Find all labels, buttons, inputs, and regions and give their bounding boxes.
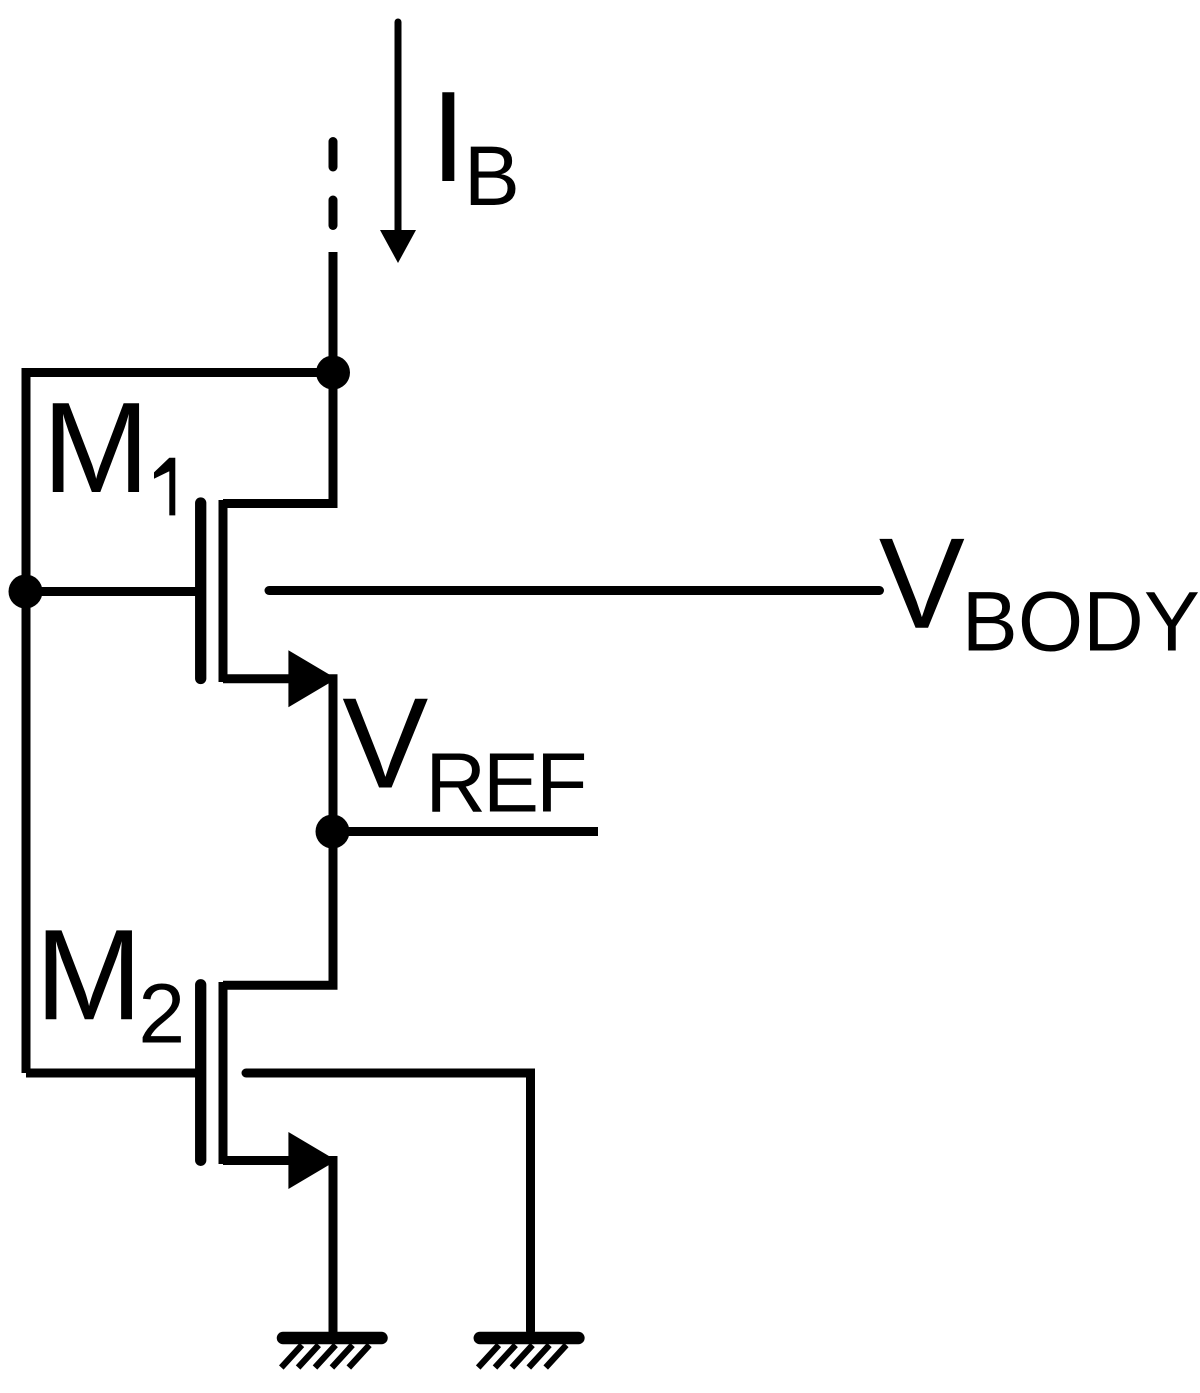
svg-text:I: I	[430, 65, 466, 209]
svg-text:V: V	[342, 672, 428, 816]
svg-text:2: 2	[138, 967, 185, 1061]
svg-text:M: M	[35, 903, 142, 1047]
svg-text:REF: REF	[425, 736, 584, 830]
svg-text:B: B	[464, 129, 520, 223]
svg-text:M: M	[42, 376, 149, 520]
svg-text:BODY: BODY	[962, 574, 1200, 668]
svg-text:V: V	[879, 512, 965, 656]
